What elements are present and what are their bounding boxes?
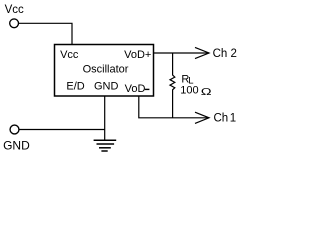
- svg-text:GND: GND: [3, 139, 30, 153]
- svg-text:VoD+: VoD+: [124, 49, 151, 61]
- svg-text:1: 1: [230, 112, 236, 124]
- svg-text:VoD: VoD: [125, 83, 146, 95]
- svg-text:100: 100: [180, 85, 198, 97]
- svg-text:Ch: Ch: [214, 112, 229, 124]
- svg-text:Ω: Ω: [201, 86, 212, 97]
- svg-text:E/D: E/D: [66, 80, 84, 92]
- svg-text:Vcc: Vcc: [5, 4, 24, 16]
- svg-text:Ch 2: Ch 2: [213, 48, 237, 60]
- svg-text:Oscillator: Oscillator: [83, 64, 129, 76]
- svg-text:GND: GND: [94, 80, 119, 92]
- svg-text:Vcc: Vcc: [60, 49, 79, 61]
